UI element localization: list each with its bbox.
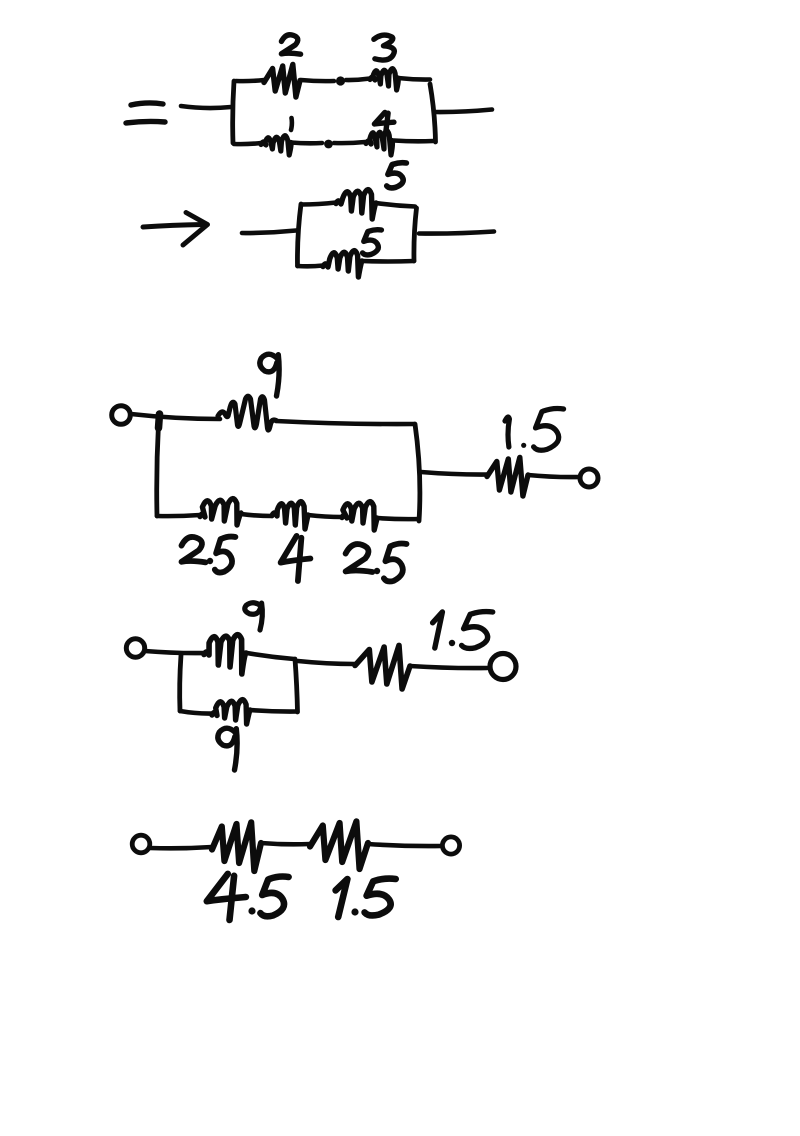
- wire: [181, 106, 231, 108]
- wire: [180, 711, 212, 714]
- junction dot: [324, 140, 333, 149]
- wire: [421, 472, 488, 475]
- resistor 1: [261, 136, 291, 155]
- junction dot: [336, 76, 345, 85]
- resistor 4: [366, 131, 393, 155]
- wire: [236, 80, 264, 81]
- wire: [261, 843, 310, 844]
- terminal (figure 3 left): [112, 406, 131, 425]
- wire: [241, 514, 272, 516]
- wire: [377, 518, 419, 519]
- wire: [291, 140, 322, 145]
- node left bus (figure 3): [157, 424, 159, 516]
- resistor 5 bottom: [323, 251, 362, 277]
- resistor 1.5 (figure 5): [310, 821, 368, 869]
- node right bus (figure 3): [415, 424, 420, 521]
- wire: [247, 653, 294, 659]
- wire: [242, 231, 296, 234]
- value label 5 (top): [387, 163, 407, 188]
- wire: [157, 515, 200, 516]
- resistor 5 top: [336, 190, 376, 219]
- value label 9 (figure 4 bottom): [218, 728, 237, 770]
- terminal (figure 4 right): [490, 654, 516, 680]
- wire: [410, 666, 487, 668]
- wire: [250, 710, 297, 712]
- resistor 9: [218, 396, 276, 430]
- wire: [419, 232, 494, 234]
- junction tick: [159, 414, 160, 428]
- wire: [298, 263, 324, 268]
- wire: [334, 142, 365, 143]
- terminal (figure 3 right): [580, 469, 598, 487]
- value label 3: [374, 35, 394, 60]
- node left bus (figure 4): [180, 655, 181, 711]
- resistor 2.5 a: [200, 499, 241, 525]
- value label 4 (figure 3): [281, 536, 311, 581]
- resistor 2.5 b: [342, 502, 377, 530]
- wire: [346, 79, 370, 81]
- arrow: [143, 213, 208, 246]
- terminal (figure 4 left): [126, 639, 144, 657]
- resistor 3: [370, 69, 398, 90]
- node left bus (figure 2): [297, 204, 301, 266]
- resistor 1.5 (figure 3): [487, 457, 528, 496]
- value label 9 (figure 3): [260, 354, 279, 396]
- wire: [131, 414, 220, 419]
- wire: [362, 259, 414, 264]
- wire: [398, 78, 430, 80]
- value label 2: [281, 35, 300, 54]
- resistor 2: [264, 64, 300, 97]
- wire: [150, 847, 212, 848]
- terminal (figure 5 right): [442, 837, 459, 854]
- wire: [301, 80, 334, 81]
- value label 1.5 (figure 3): [505, 408, 564, 450]
- wire: [394, 138, 433, 143]
- value label 1.5 (figure 5): [336, 879, 396, 917]
- wire: [436, 110, 492, 113]
- resistor 9 top (figure 4): [204, 635, 246, 674]
- wire: [276, 421, 414, 424]
- value label 1.5 (figure 4): [433, 612, 493, 649]
- value label 5 (bottom): [363, 230, 382, 255]
- resistor 4.5 (figure 5): [212, 822, 261, 871]
- equals sign: [126, 103, 165, 123]
- value label 9 (figure 4 top): [245, 603, 263, 630]
- wire: [376, 203, 415, 207]
- wire: [368, 844, 441, 846]
- resistor 9 bottom (figure 4): [212, 700, 250, 724]
- value label 4: [374, 112, 394, 132]
- wire: [234, 143, 261, 144]
- node left bus (figure 1): [233, 81, 234, 143]
- terminal (figure 5 left): [132, 835, 150, 853]
- wire: [528, 475, 580, 477]
- value label 2.5 (left): [182, 537, 236, 573]
- wire: [308, 515, 342, 517]
- node right bus (figure 1): [430, 84, 436, 142]
- wire: [298, 661, 355, 664]
- wire: [145, 651, 206, 653]
- wire: [301, 203, 336, 205]
- node right bus (figure 4): [295, 659, 298, 712]
- resistor 4 (figure 3): [272, 502, 308, 529]
- value label 4.5 (figure 5): [207, 874, 289, 920]
- node right bus (figure 2): [414, 208, 417, 261]
- value label 2.5 (right): [346, 544, 407, 582]
- value label 1 tick: [289, 118, 294, 130]
- resistor 1.5 (figure 4): [355, 645, 410, 689]
